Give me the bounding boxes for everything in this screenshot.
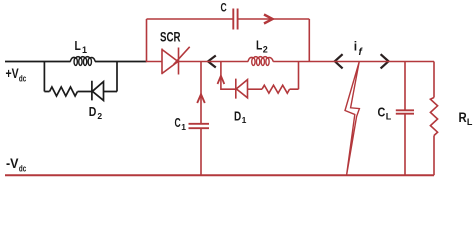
svg-text:2: 2 (263, 44, 268, 54)
svg-text:D: D (89, 105, 97, 119)
label if (354, 39, 364, 58)
wire D1 branch left vertical (221, 62, 236, 90)
label CL (378, 105, 392, 122)
svg-text:L: L (467, 117, 473, 127)
arrow on D1 branch (red, up) (218, 76, 225, 84)
wire C1 branch vertical (200, 62, 202, 176)
diode D2 (92, 81, 104, 101)
label D1 (234, 109, 247, 125)
wire vertical right of top branch (308, 19, 310, 62)
wire top branch (147, 18, 310, 20)
arrow if left (black) (335, 54, 343, 68)
svg-text:1: 1 (181, 122, 186, 132)
wire vertical left of top branch (146, 19, 148, 62)
svg-text:i: i (354, 39, 357, 54)
arrow if right (black) (381, 54, 389, 68)
capacitor C (233, 9, 237, 30)
SCR U1 (162, 48, 179, 75)
svg-text:dc: dc (19, 74, 26, 85)
svg-text:L: L (75, 39, 82, 53)
capacitor CL (396, 110, 414, 113)
wire L1 block bottom segments (44, 91, 117, 93)
label C1 (175, 116, 187, 132)
label L2 (256, 38, 268, 54)
wire RL vertical bottom (433, 136, 435, 176)
resistor RL (430, 98, 437, 136)
label D2 (89, 105, 103, 121)
svg-text:SCR: SCR (160, 30, 181, 45)
wire CL branch vertical (404, 62, 406, 176)
svg-text:2: 2 (97, 111, 102, 121)
inductor L1 (70, 57, 95, 62)
SCR gate (174, 47, 190, 65)
svg-text:C: C (175, 116, 181, 130)
wire D1 to resistor (248, 88, 263, 90)
wire bottom red (5, 174, 434, 176)
diode D1 (236, 79, 248, 99)
svg-text:C: C (378, 105, 386, 120)
svg-text:C: C (221, 0, 227, 14)
capacitor C1 (189, 124, 210, 128)
wire L1 block left vertical (43, 62, 45, 92)
wire main black left (5, 61, 147, 63)
svg-text:f: f (359, 47, 364, 58)
wire L1 block right vertical (116, 62, 118, 92)
resistor (snubber) in D1 branch (262, 85, 290, 93)
wire RL vertical top (433, 62, 435, 98)
svg-text:D: D (234, 109, 241, 123)
flash bolt (lightning) (345, 62, 359, 175)
wire main red (146, 61, 434, 63)
inductor L2 (248, 57, 273, 62)
svg-text:1: 1 (82, 45, 87, 55)
arrow on C1 branch (red, up) (197, 94, 205, 103)
label L1 (75, 39, 88, 55)
label RL (459, 110, 473, 127)
svg-text:1: 1 (242, 115, 247, 125)
svg-text:+V: +V (6, 66, 19, 81)
arrow on top branch (red, right) (264, 15, 273, 24)
resistor (snubber) in L1 block (50, 87, 78, 96)
label -Vdc (6, 156, 26, 174)
svg-text:R: R (459, 110, 467, 125)
label +Vdc (6, 66, 27, 85)
svg-text:dc: dc (19, 163, 26, 174)
svg-text:L: L (386, 112, 392, 122)
node arrow (black) after SCR pointing left (208, 56, 216, 68)
svg-text:-V: -V (6, 156, 19, 171)
svg-text:L: L (256, 38, 263, 52)
wire resistor to right vertical (290, 62, 299, 90)
